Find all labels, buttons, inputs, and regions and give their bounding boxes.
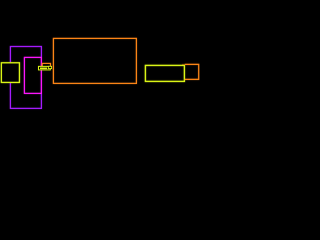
core layer [1, 38, 198, 108]
glow layer [1, 38, 198, 108]
